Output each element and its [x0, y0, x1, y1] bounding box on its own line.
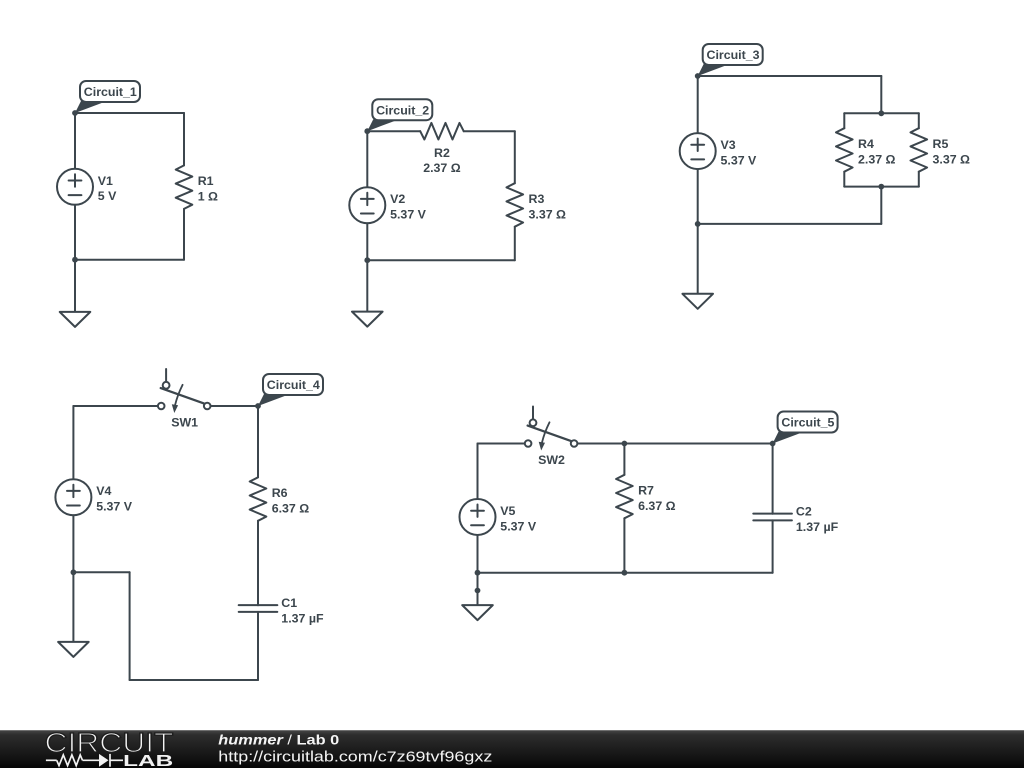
svg-text:R2: R2: [434, 146, 450, 160]
resistor R5: [911, 128, 971, 172]
svg-text:V5: V5: [500, 504, 515, 518]
svg-text:SW2: SW2: [538, 453, 565, 467]
svg-text:1.37 µF: 1.37 µF: [281, 611, 324, 625]
wire C2 ground stub: [366, 260, 368, 311]
voltage source V2: [349, 187, 426, 223]
resistor R3: [507, 183, 567, 227]
wire C3 parallel bottom bar: [844, 186, 919, 188]
node C4 junction: [71, 569, 77, 575]
wire C2 top right: [464, 130, 515, 132]
svg-text:3.37 Ω: 3.37 Ω: [529, 207, 567, 221]
wire C5 R7 stub top: [623, 444, 625, 475]
wire C5 left upper: [477, 444, 479, 500]
wire C3 left upper: [697, 76, 699, 133]
wire C2 left upper: [366, 131, 368, 187]
svg-text:SW1: SW1: [171, 415, 198, 429]
wire C3 ground stub: [697, 224, 699, 294]
wire C3 bottom drop: [880, 187, 882, 224]
wire C5 top left: [478, 443, 525, 445]
svg-text:R5: R5: [933, 137, 949, 151]
node C3 parallel top: [878, 110, 884, 116]
svg-text:5.37 V: 5.37 V: [96, 500, 133, 514]
wire C1 left lower: [74, 205, 76, 260]
svg-text:Circuit_3: Circuit_3: [707, 48, 760, 62]
wire C1 bottom: [75, 259, 184, 261]
svg-text:5 V: 5 V: [98, 189, 117, 203]
svg-text:2.37 Ω: 2.37 Ω: [858, 152, 896, 166]
resistor R4: [836, 128, 896, 172]
voltage source V3: [680, 133, 757, 169]
wire C4 right upper: [257, 406, 259, 477]
ground C3: [682, 294, 713, 309]
wire C3 bottom: [698, 223, 882, 225]
footer bar: [0, 730, 1024, 768]
svg-text:V1: V1: [98, 174, 113, 188]
resistor R2: [420, 123, 464, 175]
svg-text:R4: R4: [858, 137, 874, 151]
wire C4 right lower: [257, 612, 259, 680]
logo circuit line with resistor and diode: [46, 754, 123, 767]
svg-text:5.37 V: 5.37 V: [500, 519, 537, 533]
node C5 top R7: [622, 441, 628, 447]
svg-text:R1: R1: [198, 174, 214, 188]
nametag Circuit_3: [695, 44, 763, 79]
svg-text:3.37 Ω: 3.37 Ω: [933, 152, 971, 166]
wire C4 right mid: [257, 521, 259, 605]
wire C2 left lower: [366, 223, 368, 260]
node Circuit_2 attach: [364, 128, 370, 134]
node C1 bottom junction: [72, 257, 78, 263]
wire C5 left lower: [477, 535, 479, 573]
svg-text:1.37 µF: 1.37 µF: [796, 520, 839, 534]
wire C4 ground stub: [72, 572, 74, 642]
node Circuit_5 attach: [770, 441, 776, 447]
wire C1 top: [75, 112, 184, 114]
resistor R7: [616, 475, 676, 519]
svg-text:Circuit_5: Circuit_5: [781, 416, 834, 430]
wire C4 top left: [73, 405, 158, 407]
wire C3 R5 stub bottom: [918, 172, 920, 187]
wire C5 top mid: [577, 443, 624, 445]
svg-text:LAB: LAB: [123, 753, 173, 768]
wire C3 R4 stub bottom: [843, 172, 845, 187]
svg-text:R3: R3: [529, 192, 545, 206]
ground C1: [60, 312, 91, 327]
wire C4 return left: [73, 571, 129, 573]
wire C2 top left: [367, 130, 420, 132]
voltage source V1: [57, 169, 117, 205]
wire C4 bottom: [130, 679, 258, 681]
svg-text:2.37 Ω: 2.37 Ω: [423, 161, 461, 175]
svg-text:http://circuitlab.com/c7z69tvf: http://circuitlab.com/c7z69tvf96gxz: [218, 749, 492, 766]
node C3 bottom junction: [695, 221, 701, 227]
wire C2 bottom: [367, 259, 515, 261]
svg-text:5.37 V: 5.37 V: [390, 208, 427, 222]
svg-text:R7: R7: [638, 484, 654, 498]
node Circuit_1 attach: [72, 110, 78, 116]
svg-text:5.37 V: 5.37 V: [721, 153, 758, 167]
voltage source V4: [55, 479, 132, 515]
node Circuit_3 attach: [695, 73, 701, 79]
svg-text:V3: V3: [721, 138, 736, 152]
svg-text:Circuit_2: Circuit_2: [376, 103, 429, 117]
resistor R1: [176, 165, 218, 209]
node C5 bottom R7: [622, 570, 628, 576]
resistor R6: [250, 477, 310, 521]
wire C3 top drop: [880, 76, 882, 113]
wire C5 ground stub: [477, 573, 479, 605]
wire C3 parallel top bar: [844, 112, 919, 114]
nametag Circuit_5: [770, 412, 838, 447]
wire C1 right upper: [183, 113, 185, 165]
wire C2 right lower: [514, 227, 516, 261]
wire C5 R7 stub bottom: [623, 518, 625, 572]
capacitor C1: [239, 596, 324, 625]
capacitor C2: [753, 505, 838, 534]
svg-text:C1: C1: [281, 596, 297, 610]
node C2 bottom junction: [364, 257, 370, 263]
nametag Circuit_2: [364, 99, 432, 134]
wire C3 R5 stub top: [918, 113, 920, 128]
node C3 parallel bottom: [878, 184, 884, 190]
ground C5: [462, 605, 493, 620]
switch SW2: [525, 407, 578, 467]
node C5 bottom junction: [475, 570, 481, 576]
ground C2: [352, 312, 383, 327]
svg-text:V2: V2: [390, 192, 405, 206]
node C5 ground net: [475, 588, 481, 594]
ground C4: [58, 642, 89, 657]
switch SW1: [158, 369, 211, 429]
wire C4 left upper: [72, 406, 74, 479]
svg-text:6.37 Ω: 6.37 Ω: [272, 501, 310, 515]
wire C1 right lower: [183, 209, 185, 260]
svg-text:6.37 Ω: 6.37 Ω: [638, 499, 676, 513]
nametag Circuit_4: [255, 374, 323, 409]
nametag Circuit_1: [72, 81, 140, 116]
wire C2 right upper: [514, 131, 516, 183]
wire C1 ground stub: [74, 260, 76, 312]
wire C3 R4 stub top: [843, 113, 845, 128]
svg-text:1 Ω: 1 Ω: [198, 189, 218, 203]
wire C5 top right: [624, 443, 772, 445]
wire C3 top: [698, 75, 882, 77]
svg-text:Circuit_1: Circuit_1: [84, 85, 137, 99]
svg-text:hummer / Lab 0: hummer / Lab 0: [218, 732, 339, 748]
svg-text:Circuit_4: Circuit_4: [267, 378, 320, 392]
wire C1 left upper: [74, 113, 76, 169]
wire C3 left lower: [697, 169, 699, 224]
svg-text:R6: R6: [272, 486, 288, 500]
svg-text:C2: C2: [796, 505, 812, 519]
wire C4 left lower: [72, 515, 74, 572]
wire C4 return riser: [129, 572, 131, 680]
wire C5 C2 stub bottom: [772, 520, 774, 572]
wire C4 top right: [210, 405, 258, 407]
wire C5 bottom: [478, 572, 773, 574]
node Circuit_4 attach: [255, 403, 261, 409]
wire C5 C2 stub top: [772, 444, 774, 514]
voltage source V5: [460, 499, 537, 535]
svg-text:V4: V4: [96, 484, 111, 498]
